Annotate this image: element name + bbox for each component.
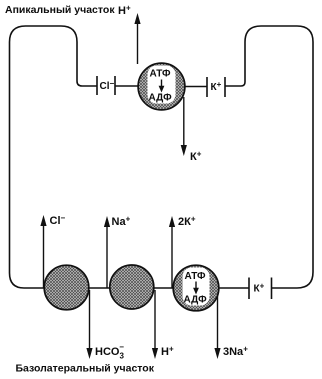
label: Апикальный участок xyxy=(5,4,115,16)
wire: apical membrane pump to K channel xyxy=(185,86,207,88)
label: Na+ (basolateral) xyxy=(112,215,131,229)
svg-text:Na+: Na+ xyxy=(112,215,131,229)
Na+/H+ exchanger (basolateral, circle 2) xyxy=(110,265,154,309)
svg-text:2К+: 2К+ xyxy=(178,215,196,229)
label: HCO3- xyxy=(95,343,124,361)
svg-text:АДФ: АДФ xyxy=(149,93,173,104)
svg-text:К+: К+ xyxy=(254,282,265,295)
label: Cl- (basolateral) xyxy=(50,214,66,228)
svg-text:Cl−: Cl− xyxy=(50,214,66,228)
arrow: Na+ into cell (up, left of exchanger 2) xyxy=(104,216,110,288)
label: K+ (below apical pump) xyxy=(190,150,202,164)
Na+/K+-ATPase pump (basolateral, circle 3) xyxy=(173,265,219,311)
label: 2K+ (basolateral) xyxy=(178,215,196,229)
arrow: 2K+ into cell (up, left of Na/K pump) xyxy=(169,216,175,288)
svg-text:3Na+: 3Na+ xyxy=(223,345,248,359)
svg-text:К+: К+ xyxy=(211,80,222,93)
svg-text:Апикальный участок: Апикальный участок xyxy=(5,4,115,16)
K+ channel (apical membrane) xyxy=(207,77,225,97)
cell outline: basolateral membrane and bottom-left corner xyxy=(10,273,250,288)
arrow: H+ out of cell (down, right of exchanger 2) xyxy=(152,290,158,359)
label: H+ (apical, top) xyxy=(118,4,131,18)
svg-text:H+: H+ xyxy=(118,4,131,18)
svg-text:HCO3−: HCO3− xyxy=(95,343,124,361)
label: 3Na+ xyxy=(223,345,248,359)
arrow: 3Na+ out of cell (down, right of Na/K pump) xyxy=(214,290,220,359)
arrow: H+ out through apical pump (up) xyxy=(134,13,140,64)
svg-text:АТФ: АТФ xyxy=(185,271,206,282)
arrow: K+ into cell from apical pump (down) xyxy=(181,97,187,156)
svg-text:H+: H+ xyxy=(161,345,174,359)
arrow: Cl- into cell (up, left of exchanger 1) xyxy=(40,215,46,288)
Cl-/HCO3- exchanger (basolateral, circle 1) xyxy=(44,265,89,310)
arrow: HCO3- out of cell (down, right of exchanger 1) xyxy=(86,290,92,359)
cell outline: right shoulder xyxy=(225,26,313,288)
svg-text:К+: К+ xyxy=(190,150,202,164)
wire: apical membrane Cl channel to pump xyxy=(115,85,139,87)
svg-text:Базолатеральный участок: Базолатеральный участок xyxy=(16,363,155,375)
H+/K+-ATPase pump (apical) xyxy=(138,63,185,110)
Cl- channel (apical membrane) xyxy=(97,76,115,95)
svg-text:Cl−: Cl− xyxy=(100,79,115,92)
svg-text:АДФ: АДФ xyxy=(184,295,208,306)
label: Базолатеральный участок xyxy=(16,363,155,375)
cell outline: left shoulder and apical left membrane xyxy=(10,26,98,273)
K+ channel (basolateral membrane, right) xyxy=(249,278,272,300)
svg-text:АТФ: АТФ xyxy=(150,69,171,80)
label: H+ (bottom) xyxy=(161,345,174,359)
